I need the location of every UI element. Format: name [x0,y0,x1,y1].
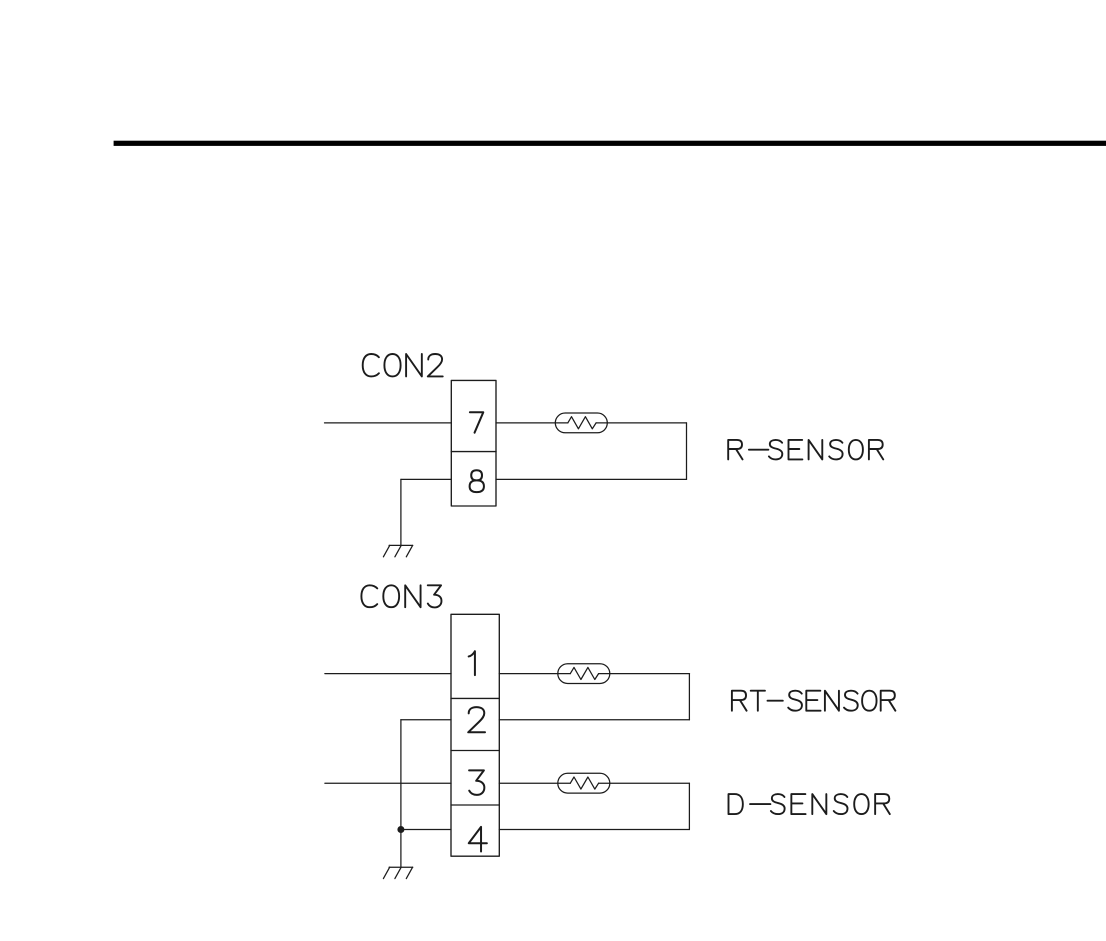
wire loop 1 right vertical [688,674,690,720]
wire pin 8 left stub [401,478,451,480]
wire pin 3 to thermistor [499,782,558,784]
wire loop 2 right vertical [688,783,690,829]
junction dot [397,826,404,833]
ground symbol (CON2) [383,545,412,556]
wire pin 3 left stub [325,782,451,784]
pin 7 number [470,412,483,432]
wire thermistor to loop 1 corner [610,673,690,675]
thermistor R-SENSOR element [555,413,607,433]
wire pin 8 down to ground [400,479,402,545]
wire loop bottom return to pin 8 [496,478,687,480]
wire thermistor to loop 2 corner [610,782,690,784]
wire loop right vertical [686,423,688,480]
wire loop 1 bottom return to pin 2 [499,719,689,721]
ground symbol (CON3) [383,867,412,878]
connector CON2 body [451,380,496,506]
pin 2 number [468,707,485,732]
thermistor RT-SENSOR element [558,664,610,684]
wire pin 1 left stub [325,673,451,675]
wire loop 2 bottom return to pin 4 [499,829,689,831]
net label D-SENSOR [729,794,890,814]
connector CON3 body [451,614,499,856]
wire pin 4 left stub [401,829,451,831]
thermistor D-SENSOR element [558,773,610,793]
wire thermistor to loop corner [607,422,686,424]
pin 1 number [469,651,475,675]
connector CON2 label [363,354,443,376]
wire pin 7 left stub [325,422,452,424]
connector CON3 label [361,585,441,607]
pin 3 number [469,770,484,795]
wire pin 1 to thermistor [499,673,558,675]
wire pin 7 to thermistor [496,422,555,424]
wire pin 2 down to ground [400,720,402,867]
header rule bar [114,141,1106,146]
pin 8 number [470,470,484,492]
pin 4 number [469,827,487,852]
net label RT-SENSOR [732,691,895,711]
net label R-SENSOR [728,440,883,460]
wire pin 2 left stub [401,719,451,721]
